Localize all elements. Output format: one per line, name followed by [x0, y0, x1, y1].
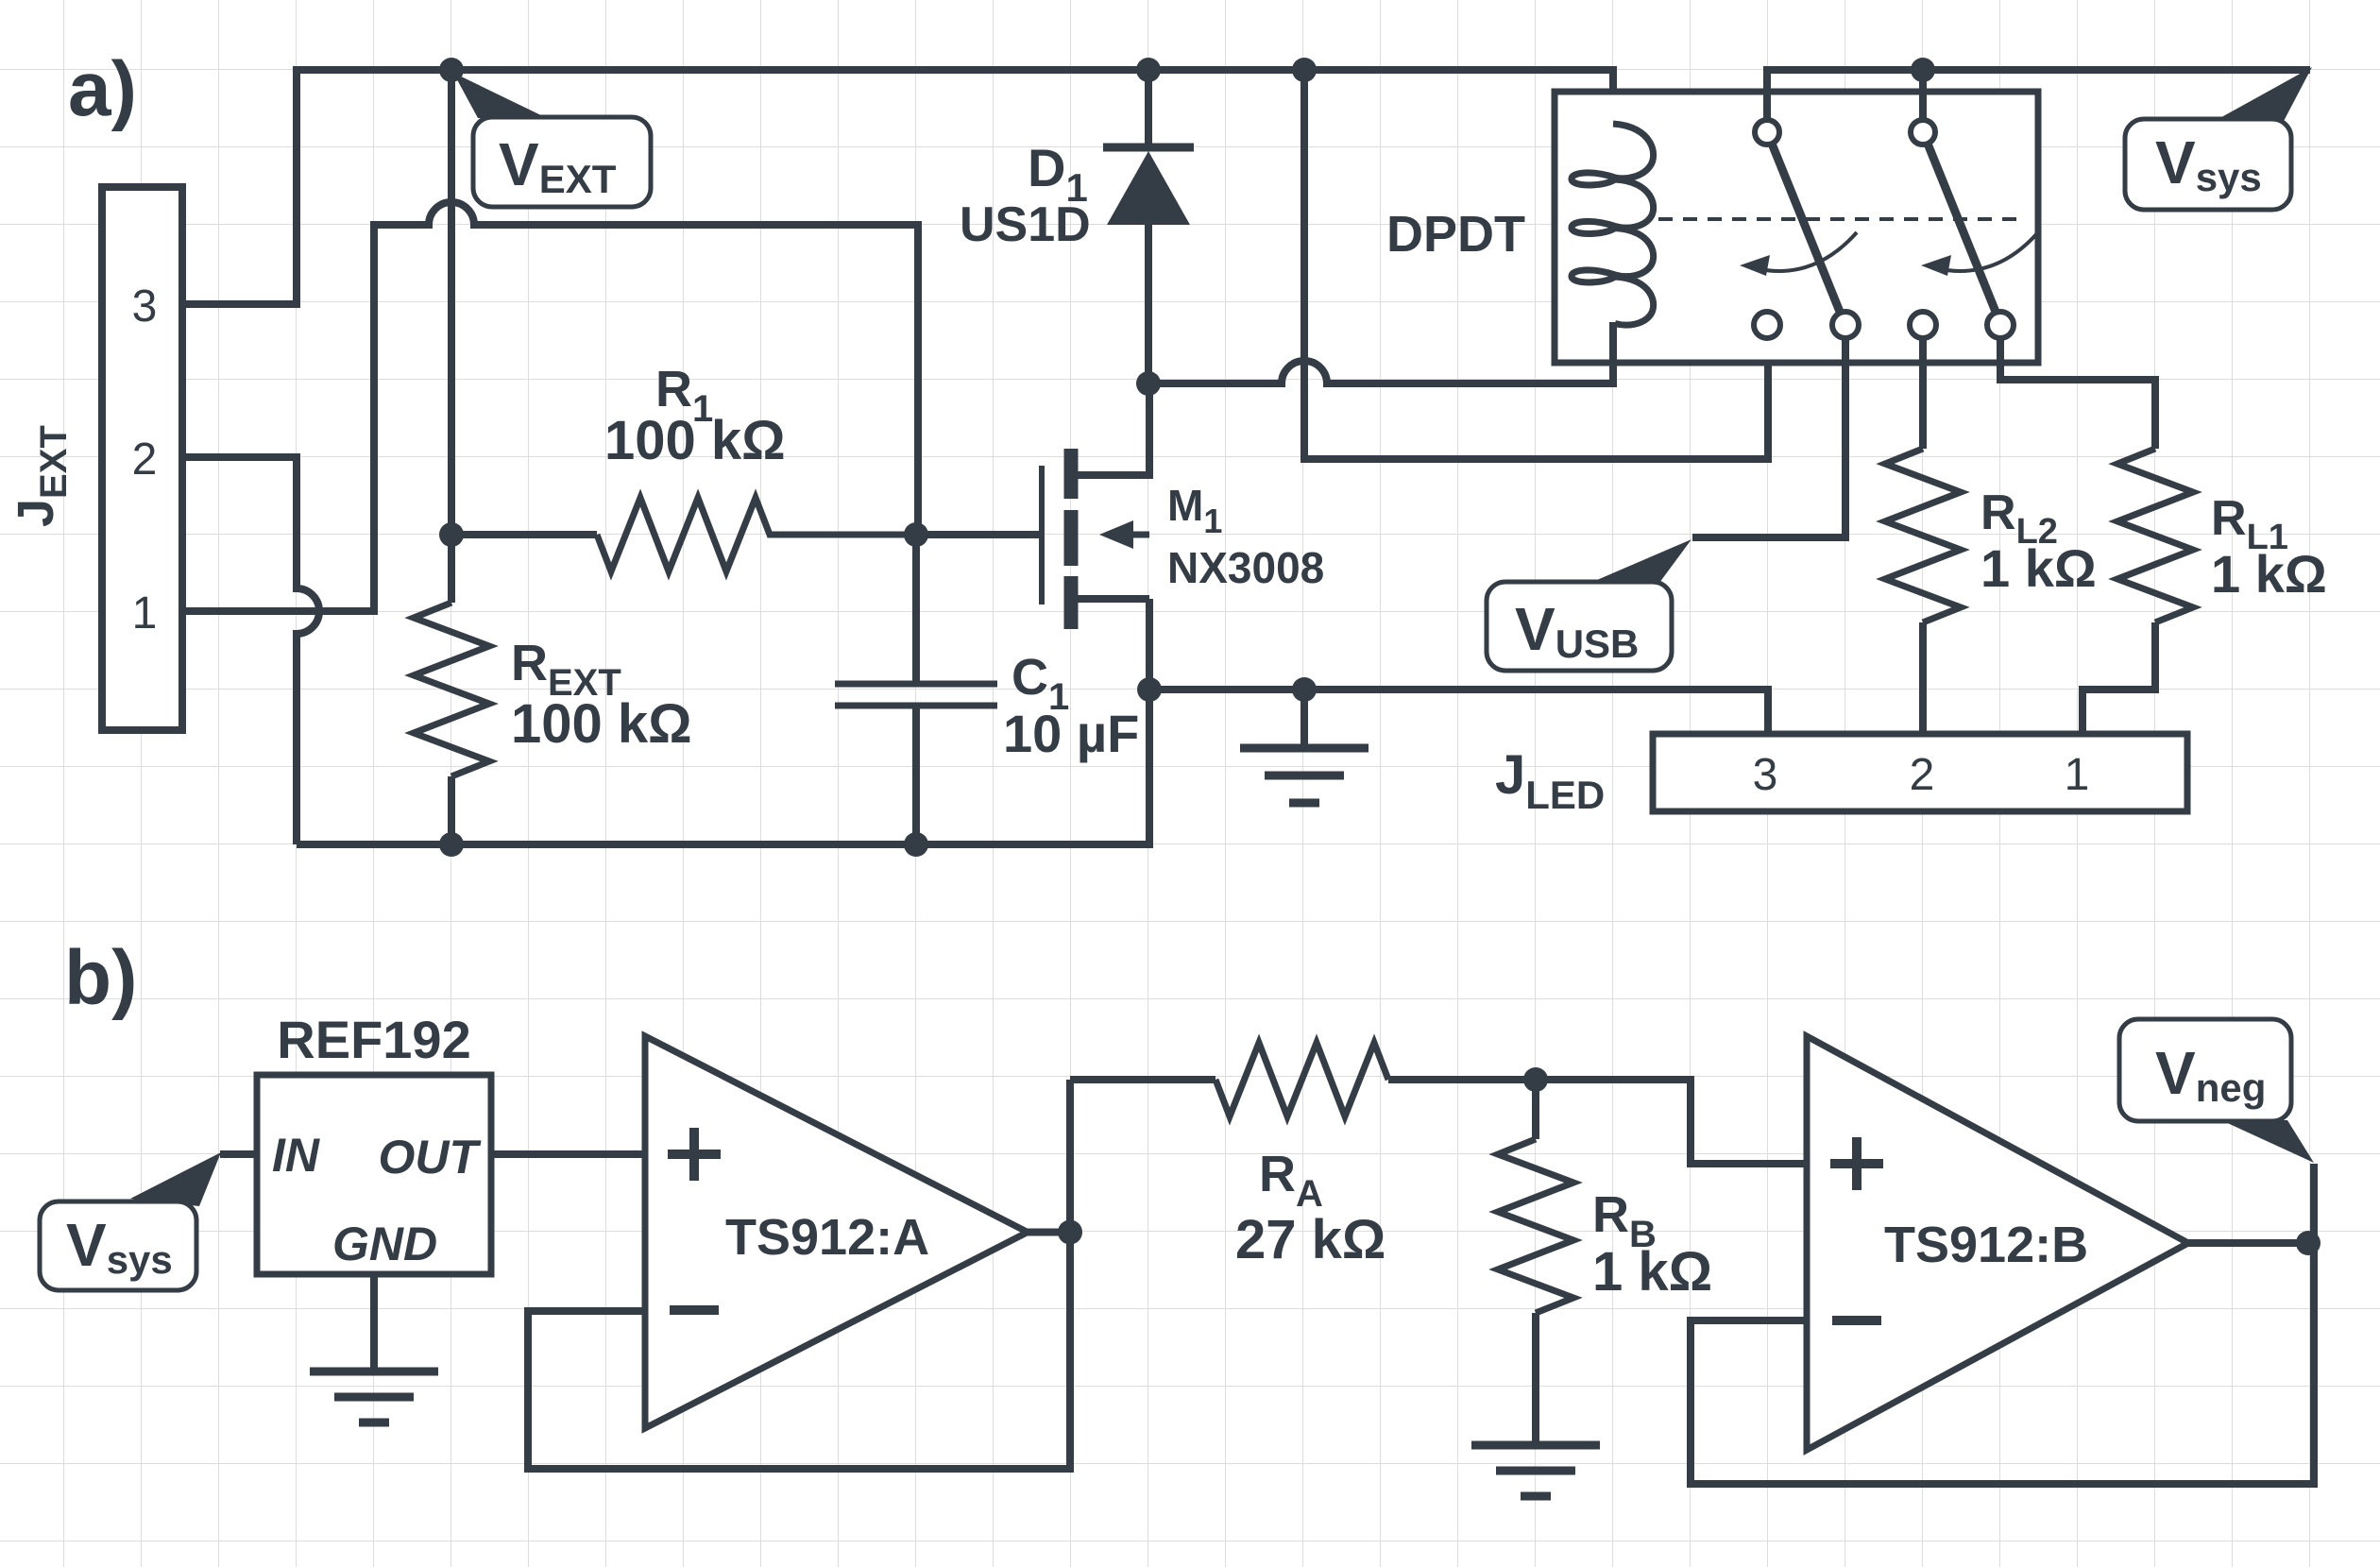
wire: U1A output node	[528, 1080, 1070, 1469]
relay DPDT box	[1555, 92, 2038, 363]
svg-text:100 kΩ: 100 kΩ	[604, 410, 786, 471]
svg-text:100 kΩ: 100 kΩ	[511, 693, 692, 755]
relay switch arm pole 2	[1928, 144, 1996, 312]
relay bottom contact 3	[1910, 312, 1936, 338]
junction node a9	[1292, 677, 1317, 702]
ground (part a)	[1240, 690, 1368, 803]
wire: V_EXT vertical from top rail to R1/R_EXT node	[448, 70, 455, 535]
junction node a1	[439, 58, 464, 82]
wire: top rail branch down to relay contact row	[1304, 70, 1768, 459]
transistor M1 drain tap	[1078, 383, 1149, 475]
node V_USB callout	[1487, 539, 1691, 671]
node V_sys callout (part b)	[40, 1152, 221, 1290]
wire: J_EXT pin1 right, up, over to R1 node (hop over V_EXT line)	[182, 202, 918, 611]
wire: M1 source to ground rail and J_LED pin3	[1149, 599, 1768, 734]
resistor R_A	[1215, 1043, 1388, 1116]
connector J_EXT	[102, 187, 182, 730]
wire: D1/M1 drain node to relay coil return (hop)	[1148, 361, 1613, 383]
wire: U1A output up to R_A	[1070, 1076, 1215, 1083]
svg-text:27 kΩ: 27 kΩ	[1235, 1209, 1385, 1270]
regulator REF192 box	[257, 1075, 491, 1274]
wire: relay pole 1 pivot to top rail, top rail to V_sys	[1767, 70, 2310, 120]
svg-text:3: 3	[132, 281, 158, 332]
resistor R_L2	[1885, 449, 1961, 734]
svg-text:1 kΩ: 1 kΩ	[2211, 544, 2327, 604]
relay arrow pole 1	[1740, 232, 1857, 276]
wire: J_EXT pin2 down to bottom rail (hop over pin1 wire)	[182, 457, 319, 844]
ground (REF192)	[310, 1371, 438, 1422]
junction node a7	[1136, 371, 1161, 396]
resistor R_EXT	[414, 535, 489, 844]
wire: relay pole 2 pivot stub	[1919, 70, 1927, 120]
node V_sys callout (part a)	[2125, 67, 2312, 210]
resistor R_B	[1498, 1080, 1573, 1445]
transistor M1 body arrow	[1099, 520, 1149, 549]
wire: R1 left lead	[451, 531, 597, 538]
svg-text:TS912:A: TS912:A	[725, 1209, 929, 1266]
op-amp U1A plus sign	[668, 1128, 721, 1181]
svg-text:OUT: OUT	[378, 1131, 482, 1184]
relay switch arm pole 1	[1772, 144, 1840, 312]
svg-text:b): b)	[64, 935, 137, 1021]
node V_EXT callout	[453, 73, 651, 207]
junction node b2	[1523, 1067, 1548, 1092]
wire: U1B output and feedback loop	[1691, 1164, 2314, 1484]
op-amp U1A TS912:A triangle	[645, 1036, 1028, 1428]
wire: V_sys callout to REF192 IN	[220, 1150, 257, 1158]
connector J_EXT label	[8, 425, 75, 527]
relay actuation dashed line	[1658, 217, 2024, 221]
relay coil	[1572, 124, 1654, 325]
resistor R_L1	[2082, 449, 2193, 734]
connector J_LED	[1653, 734, 2187, 811]
svg-text:NX3008: NX3008	[1167, 543, 1324, 592]
svg-text:IN: IN	[272, 1129, 320, 1182]
junction node a11	[904, 832, 928, 857]
relay bottom contact 1	[1754, 312, 1780, 338]
svg-text:2: 2	[1910, 750, 1935, 800]
wire: J_EXT pin3 to top rail, top rail to relay coil	[182, 70, 1613, 304]
junction node a6	[904, 522, 928, 547]
transistor M1 gate bar	[1039, 466, 1045, 605]
svg-text:REF192: REF192	[277, 1010, 470, 1069]
svg-text:a): a)	[68, 46, 137, 132]
junction node a10	[439, 832, 464, 857]
wire: relay contact 2 to V_USB	[1692, 338, 1845, 537]
relay pivot contact pole 2	[1911, 120, 1935, 145]
junction node b1	[1058, 1220, 1082, 1245]
wire: bottom rail	[297, 599, 1149, 844]
junction node a5	[439, 522, 464, 547]
op-amp U1B plus sign	[1830, 1137, 1883, 1190]
junction node a2	[1136, 58, 1161, 82]
junction node a8	[1137, 677, 1162, 702]
svg-text:GND: GND	[332, 1218, 437, 1270]
op-amp U1B TS912:B triangle	[1807, 1036, 2188, 1450]
relay bottom contact 2	[1832, 312, 1859, 338]
capacitor C1	[835, 535, 997, 844]
svg-text:1 kΩ: 1 kΩ	[1980, 538, 2097, 598]
svg-text:US1D: US1D	[960, 197, 1091, 252]
resistor R1	[597, 498, 916, 571]
diode D1	[1103, 70, 1194, 383]
wire: R_A to R_B node to U1B plus	[1388, 1080, 1807, 1164]
wire: REF192 GND to ground	[370, 1274, 378, 1371]
svg-text:1: 1	[2065, 750, 2090, 800]
wire: relay contact 3 to R_L2	[1919, 338, 1927, 449]
svg-text:10 µF: 10 µF	[1003, 704, 1139, 763]
transistor M1 channel segments	[1064, 449, 1079, 629]
relay bottom contact 4	[1987, 312, 2014, 338]
node V_neg callout	[2119, 1019, 2314, 1163]
op-amp U1A minus sign	[670, 1305, 719, 1315]
transistor M1 source tap	[1078, 595, 1149, 603]
svg-text:1 kΩ: 1 kΩ	[1592, 1241, 1712, 1303]
ground (R_B)	[1471, 1445, 1600, 1496]
wire: REF192 OUT to op-amp U1A plus input	[491, 1150, 645, 1158]
junction node a3	[1292, 58, 1317, 82]
wire: relay contact 4 to R_L1	[2000, 338, 2155, 449]
svg-text:DPDT: DPDT	[1386, 206, 1525, 263]
relay coil bottom tail	[1609, 322, 1617, 363]
svg-text:TS912:B: TS912:B	[1884, 1217, 2088, 1273]
op-amp U1B minus sign	[1832, 1316, 1881, 1325]
relay pivot contact pole 1	[1755, 120, 1779, 145]
wire: R1 node to M1 gate	[916, 531, 1040, 538]
svg-text:1: 1	[132, 588, 158, 639]
svg-text:3: 3	[1753, 750, 1778, 800]
junction node a4	[1911, 58, 1935, 82]
relay arrow pole 2	[1921, 232, 2038, 276]
junction node b3	[2296, 1231, 2320, 1255]
svg-text:2: 2	[132, 434, 158, 485]
